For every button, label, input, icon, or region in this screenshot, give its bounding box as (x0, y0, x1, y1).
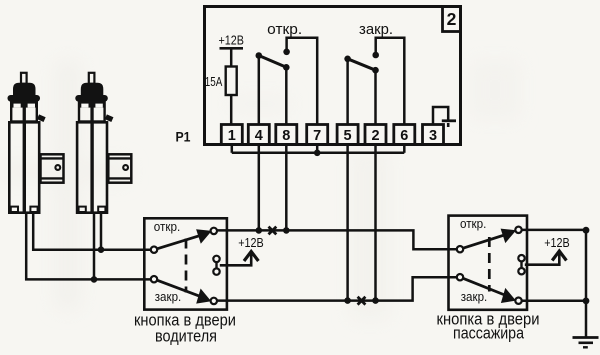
wire: terminal 4 leg up (258, 56, 261, 125)
contact pivot node (pin 5) (344, 56, 351, 63)
terminal 2 (365, 125, 386, 145)
relay armature 4-8 (259, 56, 287, 68)
junction: pin 2 on close net (372, 297, 379, 304)
splice mark open net (269, 227, 277, 235)
wire: terminal 8 leg down (285, 145, 288, 231)
terminal 1 (221, 125, 242, 145)
passenger lower contact terminal (515, 298, 521, 304)
passenger door button box (449, 216, 528, 310)
wire: ground bus vertical (585, 230, 588, 336)
passenger common terminal upper (518, 255, 524, 261)
actuator 2 rod (89, 73, 95, 84)
splice mark close net (358, 297, 366, 305)
driver +12V arrow (244, 252, 258, 262)
svg-text:пассажира: пассажира (453, 324, 524, 343)
junction: bus at pin 7 (314, 150, 321, 157)
actuator 2 bracket (108, 154, 131, 182)
actuator 2 bracket hole (123, 165, 128, 170)
driver coupling dashed link (185, 239, 188, 293)
wire: fuse to terminal 1 (230, 95, 233, 125)
junction: pin 5 on close net (344, 297, 351, 304)
passenger common terminal lower (518, 268, 524, 274)
relay armature 5-2 (348, 59, 376, 70)
wire: passenger common link (520, 261, 522, 268)
passenger upper arrowhead (501, 229, 517, 244)
wire: passenger close contact to ground bus (522, 300, 586, 303)
actuator 1 bracket hole (55, 165, 60, 170)
passenger coupling dashed link (488, 237, 491, 292)
wire: driver common to +12V (220, 253, 251, 266)
driver lower arrowhead (196, 289, 211, 304)
driver upper contact terminal (211, 228, 217, 234)
driver door button box (144, 218, 227, 309)
actuator 1 body divider (23, 121, 26, 213)
actuator 2 lever (105, 114, 114, 122)
actuator 1 cap (13, 83, 36, 97)
passenger upper contact terminal (515, 227, 521, 233)
driver lower pivot terminal (151, 276, 157, 282)
actuator 2 neck (79, 102, 105, 122)
actuator 1 foot left (11, 207, 18, 212)
svg-text:водителя: водителя (155, 327, 217, 346)
driver common terminal upper (213, 256, 219, 262)
actuator 1 neck (11, 102, 37, 122)
passenger lower arrowhead (501, 288, 516, 303)
wire: actuator 1 close lead (26, 213, 151, 279)
svg-text:15А: 15А (205, 75, 223, 89)
svg-text:закр.: закр. (359, 21, 393, 38)
junction: pin 8 on open net (283, 227, 290, 234)
contact node (pin 8) (283, 64, 290, 71)
driver common terminal lower (213, 268, 219, 274)
actuator 2 body divider (90, 121, 93, 213)
wire: terminal 4 leg down (258, 145, 261, 231)
svg-text:Р1: Р1 (176, 130, 191, 145)
passenger upper switch arm (463, 234, 509, 249)
terminal 8 (276, 125, 297, 145)
svg-text:+12В: +12В (544, 235, 570, 250)
bus wire terminals 1-7-6 (232, 152, 404, 155)
actuator 1 neck band (11, 101, 37, 108)
internal chassis ground bar (442, 119, 456, 122)
junction: close line actuators (91, 276, 98, 283)
wire: terminal 6 leg down (403, 145, 406, 153)
internal chassis ground tick (447, 123, 450, 127)
passenger lower pivot terminal (457, 274, 463, 280)
wire: terminal 2 leg up (374, 70, 377, 124)
actuator 2 bracket flange bottom (108, 177, 131, 179)
svg-text:закр.: закр. (155, 289, 182, 304)
relay module box (205, 7, 461, 145)
fuse 15A (226, 67, 237, 96)
driver upper arrowhead (196, 229, 212, 244)
actuator 1 rod (21, 73, 27, 84)
driver upper switch arm (157, 234, 204, 249)
terminal 4 (248, 125, 269, 145)
wire: open net driver to passenger (217, 230, 457, 249)
contact pivot node (pin 4) (255, 52, 262, 59)
wire: terminal 3 to internal chassis (433, 107, 448, 125)
actuator 1 neck slit right (28, 104, 35, 108)
terminal 6 (394, 125, 415, 145)
+12V supply bar (220, 47, 244, 50)
actuator 2 bracket flange top (108, 157, 131, 159)
svg-text:закр.: закр. (461, 289, 488, 304)
svg-text:4: 4 (255, 128, 263, 144)
svg-text:8: 8 (282, 128, 290, 144)
wire: terminal 1 leg down (231, 145, 234, 153)
actuator 1 bracket (41, 154, 64, 182)
passenger upper pivot terminal (457, 246, 463, 252)
ground symbol (573, 338, 599, 348)
actuator 1 collar (8, 95, 41, 102)
open contact node to pin 6 (372, 52, 379, 59)
actuator 1 lever (37, 114, 46, 122)
wire: actuator 2 close lead (93, 213, 96, 279)
junction: ground bus lower (583, 298, 590, 305)
svg-text:2: 2 (371, 128, 379, 144)
driver lower switch arm (157, 280, 204, 298)
svg-text:5: 5 (344, 128, 352, 144)
actuator 1 neck slit left (14, 104, 21, 108)
wire: open contact to terminal 6 (376, 38, 405, 125)
wire: driver common link (215, 262, 217, 269)
junction: ground bus top (583, 227, 590, 234)
actuator 2 neck divider (90, 101, 93, 122)
terminal 3 (423, 125, 444, 145)
svg-text:откр.: откр. (460, 216, 487, 231)
actuator 2 body (77, 122, 107, 212)
actuator 2 neck slit left (81, 104, 88, 108)
svg-text:+12В: +12В (238, 235, 264, 250)
actuator 1 bracket flange bottom (41, 177, 64, 179)
svg-text:откр.: откр. (267, 21, 302, 38)
svg-text:1: 1 (228, 128, 236, 144)
wire: passenger common to +12V (525, 252, 560, 265)
module label box 2 (443, 7, 461, 32)
actuator 1 bracket flange top (41, 157, 64, 159)
terminal 5 (337, 125, 358, 145)
passenger lower switch arm (463, 278, 509, 296)
wire: terminal 2 leg down (374, 145, 377, 301)
svg-text:6: 6 (400, 128, 408, 144)
svg-text:7: 7 (313, 128, 321, 144)
junction: pin 4 on open net (255, 227, 262, 234)
door actuator 1 (8, 73, 64, 213)
contact node (pin 2) (372, 67, 379, 74)
wire: terminal 7 leg down (316, 145, 319, 153)
wire: terminal 5 leg up (346, 59, 349, 125)
actuator 2 neck band (79, 101, 105, 108)
door actuator 2 (75, 73, 131, 213)
wire: actuator 1 open lead (33, 213, 151, 250)
junction: open line actuators (98, 246, 105, 253)
actuator 1 body (9, 122, 39, 212)
actuator 2 cap (81, 83, 104, 97)
wire: open contact to terminal 7 (287, 38, 318, 125)
terminal 7 (307, 125, 328, 145)
actuator 1 foot right (30, 207, 37, 212)
actuator 2 foot right (98, 207, 105, 212)
actuator 2 foot left (79, 207, 86, 212)
passenger +12V arrow (552, 251, 566, 261)
wire: passenger open contact to ground bus (522, 229, 586, 232)
svg-text:3: 3 (429, 128, 437, 144)
driver upper pivot terminal (151, 247, 157, 253)
svg-text:2: 2 (447, 9, 457, 29)
svg-text:+12В: +12В (218, 33, 244, 48)
open contact node to pin 7 (283, 49, 290, 56)
actuator 2 collar (75, 95, 108, 102)
wire: actuator 2 open lead (100, 213, 103, 250)
actuator 2 neck slit right (95, 104, 102, 108)
wire: supply bar to fuse (230, 48, 233, 66)
actuator 1 neck divider (23, 101, 26, 122)
svg-text:откр.: откр. (154, 219, 181, 234)
driver lower contact terminal (211, 298, 217, 304)
wire: terminal 5 leg down (346, 145, 349, 301)
wire: close net driver to passenger (217, 277, 457, 300)
wire: terminal 8 leg up (285, 67, 288, 124)
